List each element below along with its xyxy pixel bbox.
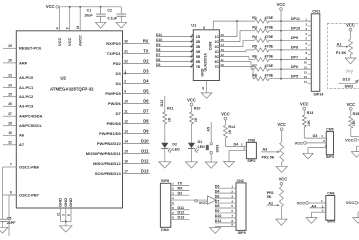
capacitor C5 22PF [0,218,7,220]
svg-text:VCC: VCC [277,2,286,7]
U2 pin 11 D7 net D7 [123,112,150,114]
svg-text:0.1uF: 0.1uF [108,17,118,21]
svg-text:9: 9 [124,89,126,93]
power net VCC wire (off right) [354,139,357,142]
wire A5 to SW1 [210,122,212,142]
svg-text:7B: 7B [196,65,201,69]
svg-text:DP8: DP8 [291,46,298,50]
U1 output wire pin 15 [219,41,240,43]
svg-text:CN8: CN8 [248,139,255,143]
U2 pin 15 MOSI/PW/PB3/D11 net D11 [123,152,150,154]
potentiometer PR1 5K [279,187,283,207]
svg-text:2: 2 [124,79,126,83]
svg-text:C2: C2 [107,9,112,13]
svg-text:6: 6 [66,27,70,29]
svg-text:VCC: VCC [221,112,230,117]
power net VCC for R10 [190,103,193,106]
U2 pin 19 A6 [3,134,16,136]
CN1 pin 14 [308,83,312,85]
svg-text:D6: D6 [215,194,220,198]
svg-text:D11: D11 [178,206,185,210]
svg-text:11: 11 [304,66,307,70]
svg-text:470E: 470E [265,54,274,58]
wire VCC to PR1 [280,185,282,186]
CN1 pin 4 [308,35,312,37]
svg-text:ATMEGA328TQFP-32: ATMEGA328TQFP-32 [50,86,94,91]
svg-text:10: 10 [304,61,308,65]
connector CN8 SIP2 [246,142,256,158]
svg-text:D7: D7 [116,111,122,116]
svg-text:DP11: DP11 [291,17,300,21]
svg-text:D13: D13 [141,169,149,174]
ground for C2 [116,22,126,28]
svg-text:VCC: VCC [57,37,62,46]
capacitor C1 10uF [100,7,102,14]
CN2 pin 4 net D7 [215,202,236,204]
ground for CN6 [306,218,317,224]
svg-text:OSC1-PB6: OSC1-PB6 [19,164,40,169]
U2 pin 13 PW/PB1/D9 net D9 [123,132,150,134]
svg-text:MOSI/PW/PB3/D11: MOSI/PW/PB3/D11 [86,151,122,156]
U1 output wire pin 16 [219,36,237,38]
svg-text:22PF: 22PF [7,221,16,225]
U1 input pin 2 net D10 [156,41,193,43]
power flag VCC on CN4 pin 4 [195,200,198,203]
svg-text:D1: D1 [198,140,203,144]
ground for D2 [159,162,171,168]
svg-text:D13: D13 [178,216,185,220]
ground under U2 [60,226,73,232]
svg-text:SW1: SW1 [215,145,219,153]
wire CN6 pin 3 to ground [312,211,326,213]
svg-text:22: 22 [8,141,12,145]
svg-text:14: 14 [124,139,128,143]
ground for CN2 [210,228,221,234]
svg-text:R8: R8 [252,74,257,78]
CN2 pin 2 net D4 [215,192,236,194]
connector CN6 SIP3 [326,196,335,221]
svg-text:PW/PB1/D9: PW/PB1/D9 [99,131,121,136]
svg-text:3B: 3B [196,45,201,49]
ground (top right module) [351,152,359,158]
svg-text:GND: GND [68,198,73,207]
svg-text:23: 23 [8,73,12,77]
joystick module dashed box [327,24,359,89]
CN4 pin 3 [171,194,190,196]
resistor R15 [350,110,352,116]
svg-text:30: 30 [124,39,128,43]
svg-text:PW/D6: PW/D6 [108,101,121,106]
svg-text:SW2: SW2 [345,84,354,89]
svg-text:ARF: ARF [19,60,28,65]
svg-text:16: 16 [124,159,128,163]
wire joining GND pins [61,221,72,223]
svg-text:A2-PC2: A2-PC2 [19,94,34,99]
junction dot pin D3 [124,72,126,74]
svg-text:VCC: VCC [46,4,55,9]
svg-text:1C: 1C [215,35,220,39]
resistor R1 470E [255,19,269,23]
svg-text:470E: 470E [265,64,274,68]
CN4 pin 1 [171,185,190,187]
switch SW1 [210,142,213,145]
svg-text:4B: 4B [196,50,201,54]
U1 input pin 3 net D9 [156,46,193,48]
svg-text:7C: 7C [215,65,220,69]
wire VCC to R14 [224,120,226,125]
off-page arrow [208,196,217,204]
svg-text:D9: D9 [215,209,220,213]
power net VCC wire to CN6 pin 1 [306,202,309,205]
wire to CN1 net DP6 [269,68,311,70]
CN1 pin 1 [308,20,312,22]
capacitor C2 0.1uF [120,7,122,14]
svg-text:13: 13 [304,75,308,79]
wire D12 to R11 [164,96,166,112]
svg-text:8: 8 [202,86,204,90]
svg-text:470E: 470E [265,74,274,78]
svg-text:GND: GND [58,198,63,207]
CN4 pin 8 [171,218,190,220]
wire to CN1 net DP5 [269,78,311,80]
U1 output wire pin 11 [219,61,251,63]
CN2 pin 6 net D9 [215,212,236,214]
svg-text:3: 3 [62,214,66,216]
svg-text:32: 32 [124,59,128,63]
svg-text:PW/PB2/D10: PW/PB2/D10 [97,141,122,146]
svg-text:D12: D12 [141,159,149,164]
svg-text:D13: D13 [343,77,351,82]
CN1 pin 2 [308,25,312,27]
svg-text:2B: 2B [196,40,201,44]
resistor R13 [303,110,305,115]
svg-text:C1: C1 [87,9,92,13]
CN1 pin 10 [308,63,312,65]
U2 pin 23 A0-PC0 [3,77,16,79]
svg-text:TX: TX [178,182,183,186]
svg-text:RX: RX [143,39,149,44]
svg-text:13: 13 [221,48,225,52]
CN2 pin 1 net D5 [215,187,236,189]
U2 pin 31 TX/PD1 net TX [123,52,150,54]
CN1 pin 11 [308,68,312,70]
svg-text:A2: A2 [268,201,273,205]
svg-text:26: 26 [8,102,12,106]
wire VCC to R10 [191,106,193,112]
resistor R5 470E [255,48,269,52]
svg-text:CN2: CN2 [237,179,244,183]
U2 pin 20 ARF [3,62,16,64]
CN4 pin 7 [171,214,190,216]
svg-text:10K: 10K [307,119,311,126]
svg-text:GND: GND [200,68,204,77]
svg-text:R6: R6 [252,54,257,58]
svg-text:R14: R14 [228,125,236,129]
svg-text:D4: D4 [116,81,122,86]
svg-text:14: 14 [304,80,308,84]
wire LED D2 to ground [164,148,166,162]
U2 pin 8 OSC2-PB7 [3,194,16,196]
svg-text:D11: D11 [141,149,149,154]
svg-text:VCC: VCC [345,137,354,142]
svg-text:10: 10 [221,63,225,67]
CN4 pin 2 [171,189,190,191]
wire R13 to CN5 net D3 [303,127,305,138]
power net VCC for PR1 [280,182,283,185]
U2 pin 29 RESET-PC6 [3,47,16,49]
potentiometer PR2 5K [280,142,284,162]
svg-text:R11: R11 [167,106,174,110]
ground for C5 [0,227,8,233]
power net VCC for ladder [280,8,283,11]
svg-text:31: 31 [124,49,128,53]
svg-text:PD2: PD2 [113,61,122,66]
svg-text:D3: D3 [313,134,318,138]
svg-text:29: 29 [8,44,12,48]
svg-text:15: 15 [124,149,128,153]
svg-text:D8: D8 [156,48,160,52]
CN4 pin 6 [171,209,190,211]
U1 input pin 1 net D11 [156,36,193,38]
U2 pin 32 PD2 net D2 [123,62,150,64]
LED D2 [161,143,168,148]
power net VCC for R13 [303,107,306,110]
svg-text:R3: R3 [252,26,257,30]
ground for PR2 [276,166,287,172]
svg-text:D5: D5 [156,63,160,67]
wire SW1 to ground [210,154,212,162]
svg-text:12: 12 [304,70,308,74]
svg-text:COM: COM [209,42,213,51]
svg-text:16: 16 [221,33,225,37]
svg-text:D5: D5 [143,89,149,94]
svg-text:LED: LED [198,145,206,149]
wire VCC rail [59,6,122,8]
svg-text:25: 25 [8,92,12,96]
svg-text:21: 21 [56,212,60,216]
svg-text:VCC: VCC [297,200,306,205]
CN2 pin 9 to ground [215,226,236,228]
svg-text:D9: D9 [156,43,160,47]
U2 pin 17 SCK/PB5/D13 net D13 [123,172,150,174]
svg-text:CN4: CN4 [161,227,170,232]
svg-text:7: 7 [10,163,12,167]
svg-text:LED: LED [172,147,180,151]
wire CN8 pin2 to ground [229,149,246,151]
CN1 pin 8 [308,54,312,56]
svg-text:6B: 6B [196,60,201,64]
U2 pin 26 A3-PC3 [3,105,16,107]
svg-text:TX: TX [143,49,149,54]
svg-text:Joy: Joy [345,68,353,73]
U2 pin 25 A2-PC2 [3,96,16,98]
svg-text:R13: R13 [307,111,314,115]
svg-text:3C: 3C [215,45,220,49]
ground for CN8 [224,162,235,168]
svg-text:D6: D6 [143,99,149,104]
svg-text:D2: D2 [178,191,183,195]
svg-text:OSC2-PB7: OSC2-PB7 [19,192,40,197]
svg-text:SCK/PB5/D13: SCK/PB5/D13 [95,171,122,176]
resistor R7 470E [255,67,269,71]
LED D1 [188,143,195,148]
svg-text:D10: D10 [156,38,162,42]
svg-text:DP5: DP5 [291,75,298,79]
svg-text:VCC: VCC [300,102,309,107]
svg-text:D3: D3 [116,71,122,76]
ground for U1 [201,93,212,98]
CN2 pin 3 net D6 [215,197,236,199]
svg-text:D7: D7 [215,199,220,203]
svg-text:U1: U1 [191,23,197,28]
svg-text:20: 20 [8,59,12,63]
svg-text:VCC: VCC [346,23,355,28]
power net VCC top [56,5,59,8]
svg-text:RX/PD0: RX/PD0 [106,41,121,46]
svg-text:VCC: VCC [346,102,355,107]
svg-text:28: 28 [8,121,12,125]
svg-text:D12: D12 [160,100,164,107]
U2 pin 1 D3 net D3 [123,72,150,74]
svg-text:R5: R5 [252,45,257,49]
svg-text:5B: 5B [196,55,201,59]
svg-text:D10: D10 [141,139,149,144]
wire to ground (off right) [357,145,359,147]
svg-text:11: 11 [124,109,128,113]
U1 pin 9 COM wire [212,21,214,30]
svg-text:SIP14: SIP14 [313,93,324,97]
svg-text:D7: D7 [143,109,149,114]
resistor R6 470E [255,58,269,62]
wire OSC2 [9,194,16,196]
svg-text:D4: D4 [143,79,149,84]
ground for CN5 [303,153,314,159]
svg-text:AVCC: AVCC [78,35,83,46]
CN1 pin 12 [308,73,312,75]
CN1 pin 5 [308,39,312,41]
svg-text:A1-PC1: A1-PC1 [19,85,34,90]
svg-text:10K: 10K [352,119,356,126]
power net VCC for R15 [349,107,352,110]
svg-text:13: 13 [124,129,128,133]
wire R14 to CN8 net D4 [224,138,226,146]
svg-text:P1 5K: P1 5K [336,51,347,55]
svg-text:10: 10 [124,99,128,103]
svg-text:470E: 470E [265,45,274,49]
svg-text:A3: A3 [263,147,268,151]
svg-text:PB0/D8: PB0/D8 [107,121,122,126]
CN2 pin 8 net D11 [215,222,236,224]
U2 pin 14 PW/PB2/D10 net D10 [123,142,150,144]
svg-text:470E: 470E [265,16,274,20]
CN1 pin 6 [308,44,312,46]
svg-text:VCC: VCC [295,140,304,145]
resistor R14 [223,125,227,138]
wire R15 to connector (off right) [350,128,352,136]
ground for P1 [345,58,356,64]
svg-text:D9: D9 [143,129,149,134]
svg-text:D3: D3 [143,69,149,74]
svg-text:470E: 470E [265,35,274,39]
svg-text:D8: D8 [215,204,220,208]
CN2 pin 5 net D8 [215,207,236,209]
svg-text:19: 19 [8,131,12,135]
U1 input pin 7 net D5 [156,66,193,68]
CN4 pin 4 [171,199,208,201]
svg-text:VCC: VCC [67,37,72,46]
svg-text:VCC: VCC [279,177,288,182]
power net VCC wire to CN5 pin 2 [304,142,307,145]
svg-text:A3-PC3: A3-PC3 [19,104,34,109]
U2 pin 12 PB0/D8 net D8 [123,122,150,124]
svg-text:VCC: VCC [187,98,196,103]
wire to CN1 net DP8 [269,49,311,51]
svg-text:RX: RX [178,186,184,190]
svg-text:R10: R10 [194,106,201,110]
svg-text:TX/PD1: TX/PD1 [107,51,122,56]
microcontroller U2 [16,31,122,208]
U1 pin 8 GND wire [206,81,208,93]
power net VCC wire (bottom right, off edge) [355,201,358,204]
connector CN2 SIP9 [236,183,246,231]
U1 input pin 4 net D8 [156,51,193,53]
svg-text:SIP3: SIP3 [326,155,334,159]
svg-text:D11: D11 [215,219,222,223]
svg-text:4: 4 [55,27,59,29]
svg-text:A5: A5 [206,127,210,132]
svg-text:4C: 4C [215,50,220,54]
wire VCC to PR2 [281,131,283,142]
svg-text:A5/PC5/SCL: A5/PC5/SCL [19,123,43,128]
U1 output wire pin 13 [219,51,246,53]
svg-text:SIP3: SIP3 [327,219,335,223]
wire R10 to LED D1 [191,124,193,143]
svg-text:11: 11 [221,58,225,62]
svg-text:A0-PC0: A0-PC0 [19,75,34,80]
svg-text:RESET-PC6: RESET-PC6 [19,46,42,51]
svg-text:A1: A1 [337,41,343,46]
svg-text:14: 14 [221,43,225,47]
connector CN5 SIP3 [326,132,333,155]
svg-text:CN6: CN6 [327,192,334,196]
svg-text:VCC: VCC [277,122,286,127]
U2 pin 10 PW/D6 net D6 [123,102,150,104]
svg-text:D2: D2 [172,143,177,147]
U1 input pin 6 net D6 [156,61,193,63]
connector CN1 SIP14 [311,14,320,92]
wire to CN1 net DP9 [269,39,311,41]
CN1 pin 13 [308,78,312,80]
wire PR1 to ground [280,207,282,220]
svg-text:DP7: DP7 [291,55,298,59]
U2 pin 30 RX/PD0 net RX [123,42,150,44]
wire to CN1 net DP11 [269,20,311,22]
wire to CN1 net DP10 [269,30,311,32]
svg-text:9: 9 [203,26,205,30]
svg-text:C5: C5 [7,216,12,220]
U1 input pin 5 net D7 [156,56,193,58]
resistor R8 470E [255,77,269,81]
wire R11 to LED D2 [164,124,166,143]
U2 pin 2 D4 net D4 [123,82,150,84]
svg-text:15: 15 [221,38,225,42]
resistor R10 [190,112,194,124]
svg-text:5: 5 [67,214,71,216]
svg-text:VCC: VCC [346,200,355,205]
U2 bottom GND pins [60,208,62,222]
CN2 pin 7 net D10 [215,217,236,219]
ground (bottom right module) [353,218,359,224]
